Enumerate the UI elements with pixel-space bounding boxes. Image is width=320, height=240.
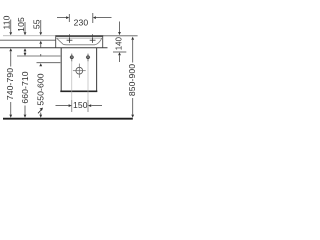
150 extension lines <box>71 100 73 112</box>
dim line 55 <box>40 20 42 32</box>
extension line y62.7 <box>37 62 61 64</box>
svg-text:150: 150 <box>73 100 88 110</box>
extension line rim right <box>103 35 138 37</box>
extension line y47.7 underside <box>0 47 108 49</box>
drain symbol <box>76 67 83 74</box>
svg-text:550-600: 550-600 <box>36 73 46 105</box>
svg-text:740-790: 740-790 <box>5 68 15 100</box>
tap hole cross left <box>67 39 73 41</box>
tap hole cross right <box>90 39 96 41</box>
svg-text:850-900: 850-900 <box>127 64 137 96</box>
bolt centre lines <box>71 61 73 100</box>
svg-text:55: 55 <box>31 19 41 29</box>
siphon box right edge <box>96 48 98 92</box>
extension line rim left (faint) <box>3 35 56 37</box>
svg-text:230: 230 <box>74 17 89 27</box>
bolt right <box>87 54 89 62</box>
svg-text:110: 110 <box>1 15 11 29</box>
dim line 110 <box>10 20 12 33</box>
svg-text:660-710: 660-710 <box>20 71 30 103</box>
bolt left <box>71 54 73 62</box>
basin right edge <box>102 37 104 48</box>
footnote arrow glyph <box>38 109 42 113</box>
dim line 105 <box>24 22 26 32</box>
extension line y40 <box>0 39 56 41</box>
stub line right of box <box>113 51 126 53</box>
svg-text:105: 105 <box>16 17 26 32</box>
siphon box bottom edge <box>60 90 97 92</box>
svg-text:140: 140 <box>115 36 124 50</box>
extension line y56 <box>17 55 60 57</box>
basin inner rim line <box>57 37 102 39</box>
floor line <box>3 118 133 120</box>
basin top edge <box>55 35 103 37</box>
230 extension stubs <box>68 14 70 22</box>
siphon box left edge <box>60 48 62 92</box>
bowl outline <box>57 38 102 45</box>
basin left edge <box>55 37 57 48</box>
